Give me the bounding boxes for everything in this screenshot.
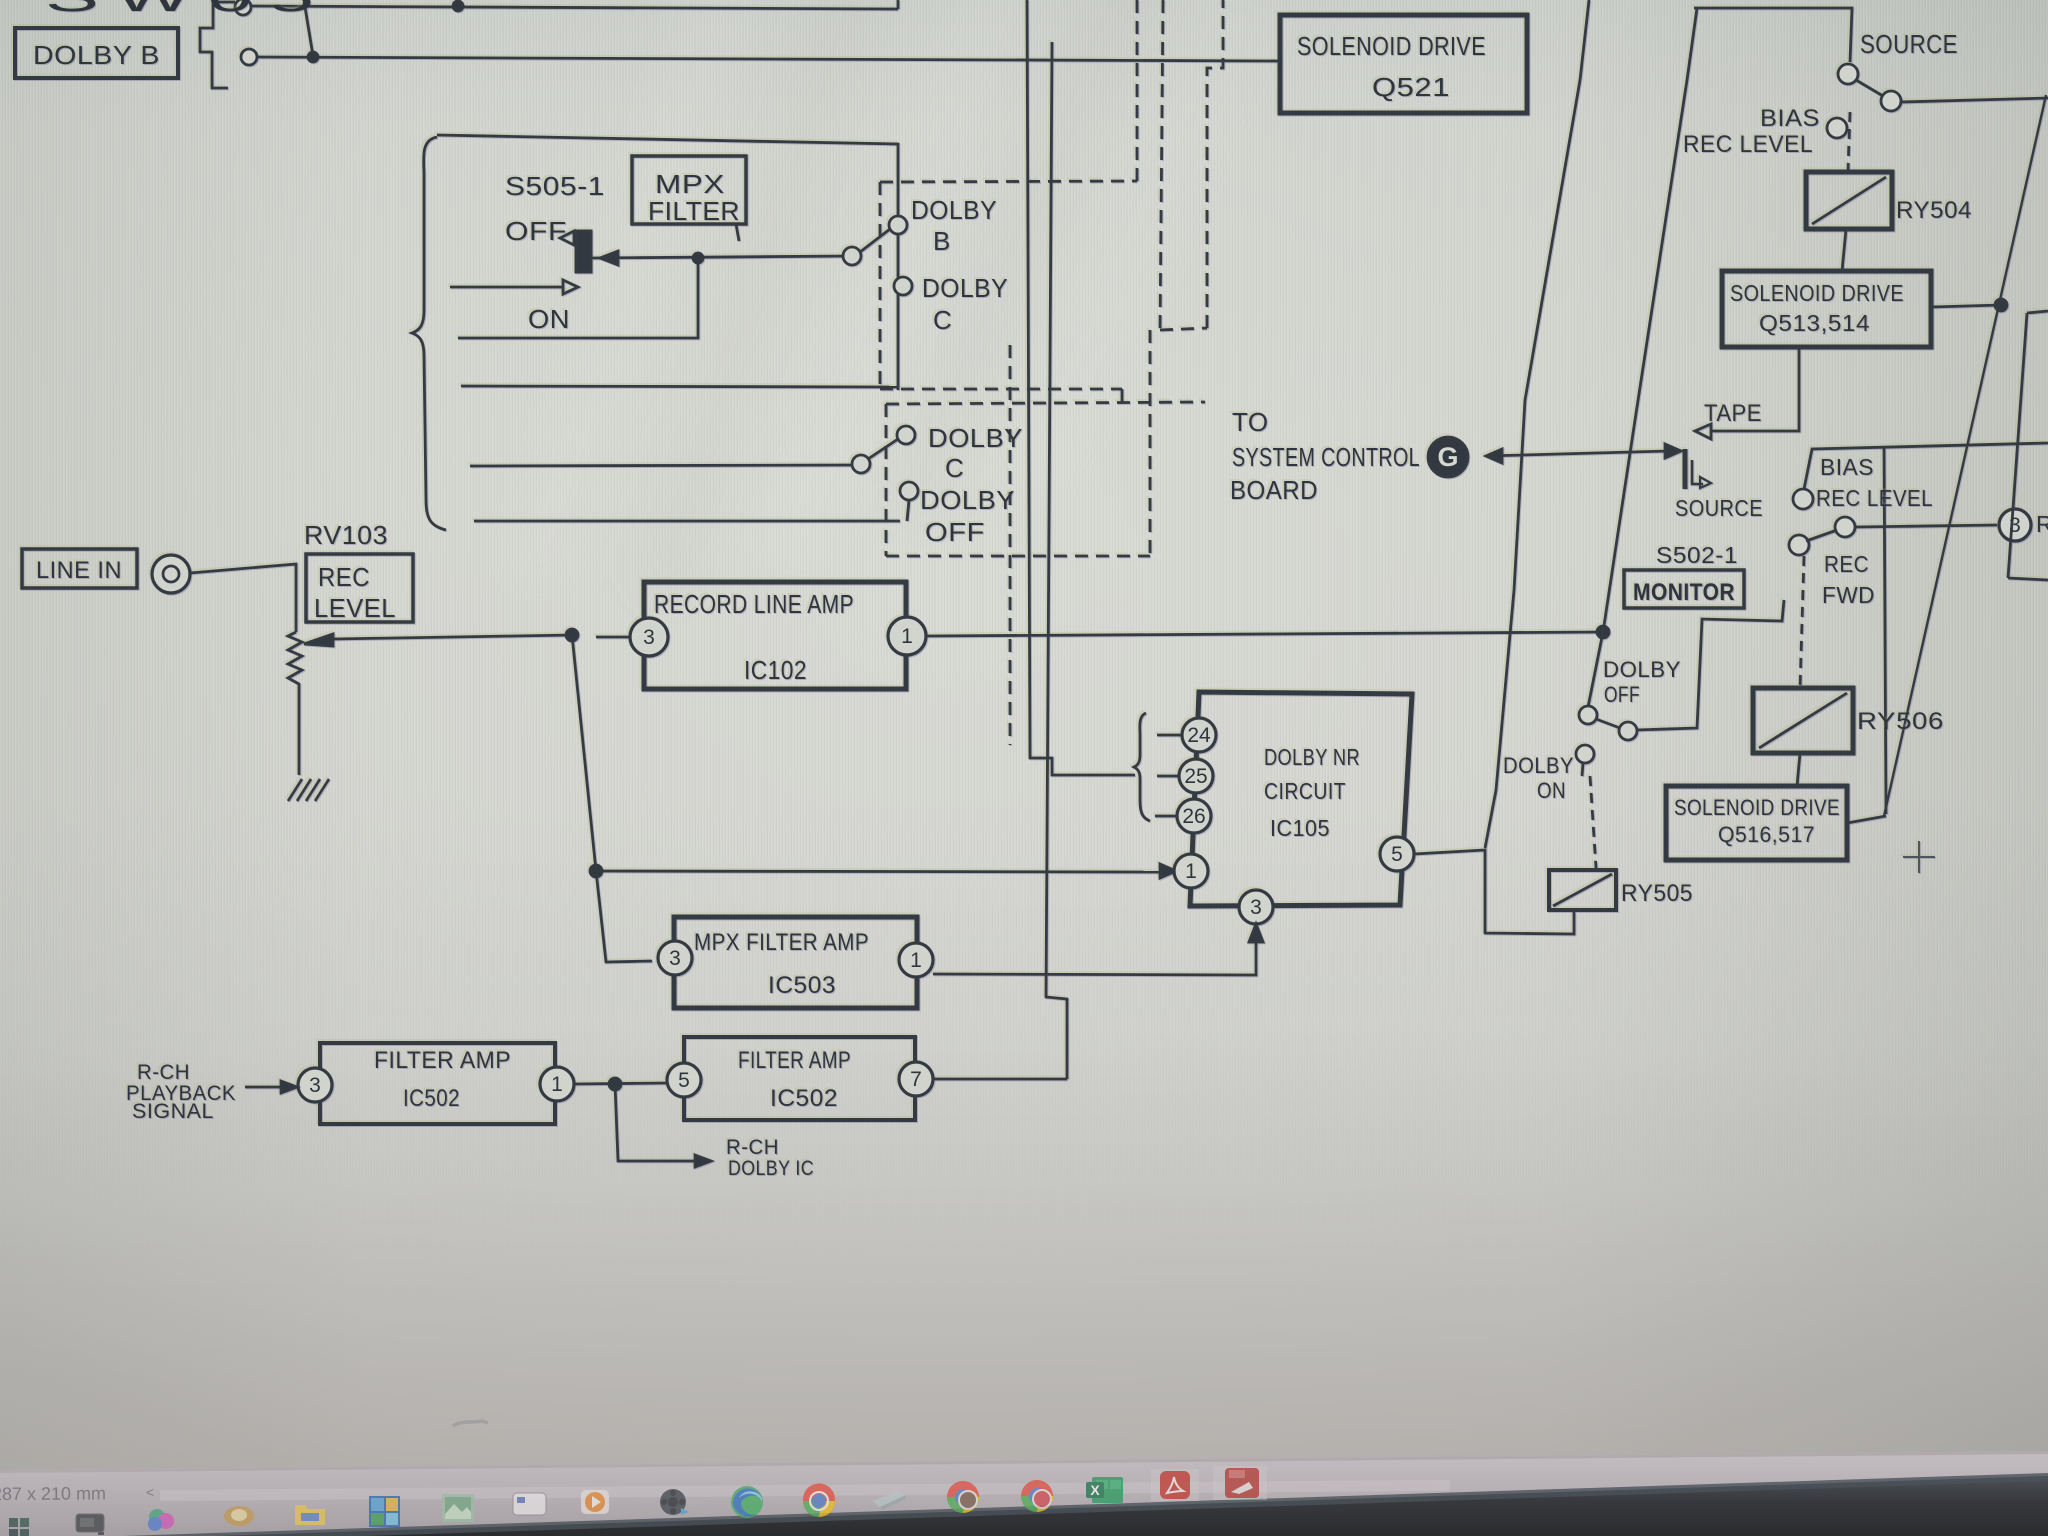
svg-text:MPX FILTER AMP: MPX FILTER AMP	[694, 929, 869, 956]
svg-text:IC105: IC105	[1270, 815, 1330, 841]
svg-text:24: 24	[1187, 724, 1211, 747]
svg-text:DOLBY: DOLBY	[922, 273, 1008, 303]
svg-text:TO: TO	[1232, 407, 1269, 437]
svg-text:Q513,514: Q513,514	[1759, 310, 1870, 336]
svg-text:RY506: RY506	[1857, 708, 1944, 735]
svg-text:1: 1	[551, 1073, 563, 1096]
svg-text:R-CH: R-CH	[137, 1061, 190, 1084]
svg-text:SYSTEM CONTROL: SYSTEM CONTROL	[1232, 442, 1420, 472]
svg-text:REC: REC	[318, 562, 370, 592]
svg-text:BIAS: BIAS	[1820, 454, 1874, 480]
svg-text:REC LEVEL: REC LEVEL	[1816, 485, 1933, 511]
svg-text:3: 3	[643, 626, 655, 649]
svg-text:SW05: SW05	[45, 0, 330, 20]
svg-text:SOLENOID DRIVE: SOLENOID DRIVE	[1730, 280, 1904, 306]
svg-text:26: 26	[1182, 805, 1205, 828]
svg-text:3: 3	[1250, 896, 1262, 919]
svg-text:Q521: Q521	[1372, 72, 1450, 102]
svg-text:SIGNAL: SIGNAL	[132, 1100, 214, 1123]
svg-text:R-CH: R-CH	[726, 1136, 779, 1159]
svg-text:B: B	[933, 226, 951, 256]
svg-text:DOLBY: DOLBY	[911, 195, 997, 225]
svg-text:DOLBY NR: DOLBY NR	[1264, 744, 1360, 770]
svg-text:REC: REC	[1824, 551, 1869, 577]
svg-text:MPX: MPX	[655, 169, 725, 199]
svg-text:RY504: RY504	[1896, 197, 1972, 224]
svg-text:Q516,517: Q516,517	[1718, 822, 1815, 847]
svg-text:MONITOR: MONITOR	[1633, 579, 1735, 606]
svg-text:FILTER: FILTER	[648, 196, 740, 226]
svg-text:C: C	[945, 453, 964, 483]
svg-text:OFF: OFF	[1604, 682, 1640, 707]
svg-text:FILTER AMP: FILTER AMP	[374, 1047, 511, 1074]
svg-text:IC502: IC502	[770, 1085, 838, 1112]
svg-text:S505-1: S505-1	[505, 171, 605, 201]
svg-text:RV103: RV103	[304, 520, 388, 550]
svg-text:DOLBY: DOLBY	[928, 423, 1023, 453]
svg-text:LINE IN: LINE IN	[36, 557, 122, 584]
svg-text:5: 5	[1391, 843, 1403, 866]
svg-text:7: 7	[910, 1068, 922, 1091]
svg-text:OFF: OFF	[505, 216, 567, 246]
svg-text:OFF: OFF	[925, 517, 985, 547]
svg-text:IC502: IC502	[403, 1085, 460, 1112]
svg-text:FWD: FWD	[1822, 582, 1875, 608]
svg-text:1: 1	[901, 625, 913, 648]
svg-text:1: 1	[910, 949, 922, 972]
svg-text:IC503: IC503	[768, 972, 836, 999]
svg-text:FILTER AMP: FILTER AMP	[738, 1047, 851, 1074]
svg-text:3: 3	[2009, 514, 2021, 537]
svg-text:BOARD: BOARD	[1230, 475, 1318, 505]
svg-text:DOLBY IC: DOLBY IC	[728, 1157, 814, 1180]
svg-text:G: G	[1437, 442, 1458, 472]
svg-text:DOLBY: DOLBY	[1603, 657, 1681, 682]
svg-text:R: R	[2036, 511, 2048, 537]
svg-text:LEVEL: LEVEL	[314, 593, 396, 623]
svg-text:TAPE: TAPE	[1704, 400, 1762, 427]
svg-text:S502-1: S502-1	[1656, 542, 1738, 568]
svg-text:25: 25	[1184, 765, 1207, 788]
svg-text:C: C	[933, 305, 952, 335]
svg-text:IC102: IC102	[744, 655, 807, 685]
svg-text:ON: ON	[528, 304, 570, 334]
svg-text:DOLBY: DOLBY	[1503, 753, 1574, 778]
svg-text:1: 1	[1185, 860, 1197, 883]
svg-text:ON: ON	[1537, 778, 1566, 803]
svg-text:RECORD LINE AMP: RECORD LINE AMP	[654, 589, 854, 619]
svg-text:SOURCE: SOURCE	[1675, 495, 1763, 521]
svg-text:DOLBY B: DOLBY B	[33, 40, 160, 70]
svg-text:REC LEVEL: REC LEVEL	[1683, 131, 1813, 158]
svg-text:3: 3	[669, 947, 681, 970]
svg-text:SOLENOID DRIVE: SOLENOID DRIVE	[1674, 795, 1840, 820]
svg-text:BIAS: BIAS	[1760, 105, 1820, 132]
svg-text:RY505: RY505	[1621, 880, 1693, 907]
svg-text:5: 5	[678, 1069, 690, 1092]
svg-text:CIRCUIT: CIRCUIT	[1264, 778, 1346, 804]
svg-text:SOLENOID DRIVE: SOLENOID DRIVE	[1297, 31, 1486, 61]
svg-text:DOLBY: DOLBY	[920, 485, 1015, 515]
svg-text:SOURCE: SOURCE	[1860, 29, 1958, 59]
svg-text:3: 3	[309, 1074, 321, 1097]
